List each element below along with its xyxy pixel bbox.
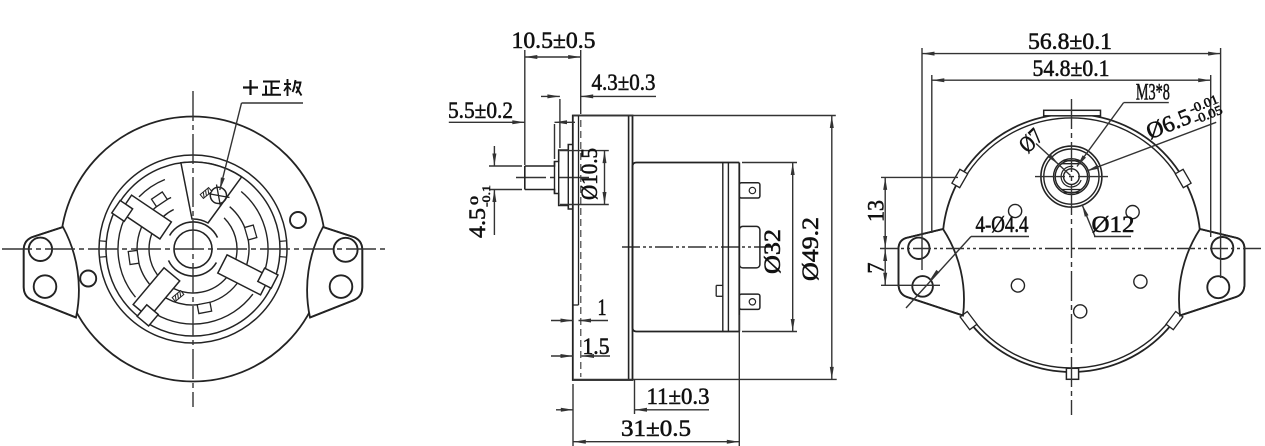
gear ring inner circle — [106, 162, 280, 336]
can seam line 2 — [727, 163, 729, 332]
svg-text:Ø32: Ø32 — [760, 229, 785, 274]
dim Ø10.5 line — [603, 151, 607, 205]
svg-text:-0.1: -0.1 — [479, 185, 493, 207]
right mounting ear (front view) — [307, 227, 362, 318]
stator notch tabs — [128, 192, 257, 314]
label text 4-Ø4.4 — [976, 212, 1029, 237]
right mounting ear (rear view) — [1179, 229, 1244, 316]
ext line boss face — [559, 99, 561, 148]
svg-text:4-Ø4.4: 4-Ø4.4 — [976, 212, 1029, 237]
rivet hole mid right — [1134, 275, 1147, 288]
svg-text:11±0.3: 11±0.3 — [647, 384, 710, 409]
dim 31±0.5 line — [573, 440, 739, 444]
ext line 56.8 left — [921, 48, 923, 270]
polarity label leader line — [220, 103, 242, 190]
right view vertical centerline — [1071, 99, 1073, 415]
label Ø7 leader — [1036, 144, 1071, 176]
dim text 4.3±0.3 — [592, 70, 656, 95]
dim 11±0.3 line — [556, 408, 709, 412]
terminal screw circle — [208, 185, 230, 207]
hub C-ring arc lower — [169, 260, 217, 276]
svg-text:10.5±0.5: 10.5±0.5 — [512, 28, 596, 53]
solder slot lower (hatched) — [172, 291, 184, 302]
rear left ear hole upper — [908, 238, 929, 259]
terminal lug upper — [739, 183, 760, 198]
shaft flat top — [1062, 161, 1082, 164]
left view horizontal centerline — [2, 248, 385, 250]
rotor arm upper-left — [112, 195, 172, 239]
ext line 54.8 left — [931, 75, 933, 233]
character zheng — [262, 82, 281, 95]
dim text 54.8±0.1 — [1033, 56, 1110, 81]
body notch tabs (rear view) — [952, 169, 1191, 329]
shaft centerline (side view) — [516, 177, 590, 179]
motor can centerline (side view) — [622, 246, 772, 248]
M3 tapped hole — [1061, 166, 1081, 187]
svg-text:4.3±0.3: 4.3±0.3 — [592, 70, 656, 95]
ext line shaft center left — [881, 176, 958, 178]
shaft journal circle Ø7 — [1054, 159, 1090, 195]
rivet hole bottom center — [1074, 305, 1087, 318]
ext line shaft tip — [524, 50, 526, 165]
label 4-Ø4.4 leader — [906, 237, 971, 309]
rotor arm lower-left — [133, 268, 180, 326]
label text Ø6.5 -0.01/-0.05 — [1142, 91, 1224, 145]
shaft boss circle Ø12 — [1041, 146, 1102, 207]
dim Ø49.2 line — [830, 116, 834, 380]
ext line hole lower left — [881, 284, 940, 286]
dim text Ø10.5 — [577, 148, 602, 200]
dim 7 line — [883, 249, 887, 286]
label Ø12 underline — [1094, 236, 1131, 238]
motor body outer circle (rear view) — [943, 114, 1201, 372]
ext line 54.8 right — [1210, 75, 1212, 237]
terminal block (top) — [181, 162, 242, 223]
right view horizontal centerline — [880, 248, 1263, 250]
dim Ø32 line — [791, 163, 795, 332]
can seam line 1 — [722, 163, 724, 332]
dim text 1.5 — [583, 334, 610, 359]
gearbox case rectangle — [573, 116, 633, 381]
dim Ø49.2 ext lines — [573, 116, 837, 380]
shaft horizontal centerline — [1035, 176, 1108, 178]
gearbox inner wall line — [573, 116, 579, 306]
shaft circle Ø6.5 — [1055, 160, 1087, 192]
dim 4.5 line — [492, 146, 496, 235]
right ear hole upper — [334, 238, 358, 262]
solder slot upper (hatched) — [200, 188, 212, 199]
top locating tab — [1044, 110, 1101, 116]
stator arc ring r75 — [118, 180, 268, 325]
rivet hole mid left — [1011, 279, 1024, 292]
rear left ear hole lower — [912, 276, 933, 297]
character ji — [284, 79, 302, 96]
label text Ø7 — [1014, 124, 1048, 158]
can seam step — [716, 285, 723, 296]
small body hole right — [290, 212, 306, 228]
dim 1.5 line — [551, 354, 610, 358]
left mounting ear (rear view) — [899, 229, 964, 316]
label Ø6.5 leader — [1087, 122, 1217, 171]
rivet hole upper left — [1009, 204, 1022, 217]
rear right ear hole lower — [1207, 276, 1229, 298]
dim text Ø49.2 — [798, 217, 823, 281]
boss step lines — [555, 145, 569, 210]
ext line small step face — [554, 124, 556, 159]
dim 1 line — [551, 319, 608, 323]
left mounting ear (front view) — [24, 227, 79, 318]
rear bearing boss — [739, 226, 760, 268]
label text Ø12 — [1092, 212, 1135, 237]
bottom locating tab — [1066, 368, 1078, 379]
dim text 4.5 0/-0.1 — [465, 185, 493, 238]
rivet hole upper right — [1126, 206, 1139, 219]
dim 5.5±0.2 line — [449, 120, 575, 124]
left ear hole upper — [29, 238, 52, 261]
dim text 13 — [864, 200, 889, 222]
svg-text:13: 13 — [864, 200, 889, 222]
stator arc ring r44 — [149, 210, 237, 293]
label 4-Ø4.4 underline — [971, 236, 1029, 238]
left ear hole lower — [34, 275, 57, 298]
dim text Ø32 — [760, 229, 785, 274]
svg-text:56.8±0.1: 56.8±0.1 — [1028, 29, 1112, 54]
dim 10.5±0.5 line — [525, 55, 581, 59]
dim text 1 — [598, 295, 607, 320]
stator arc ring r56 — [137, 198, 249, 305]
svg-text:4.5: 4.5 — [465, 208, 490, 238]
label Ø12 leader — [1082, 205, 1095, 237]
output shaft (side view) — [525, 145, 573, 210]
body rim arc bottom — [972, 318, 1172, 368]
polarity label underline — [242, 102, 304, 104]
gear ring outer circle — [99, 155, 287, 343]
left view vertical centerline — [192, 91, 194, 407]
shaft boss rim circle — [1044, 149, 1099, 204]
svg-text:Ø10.5: Ø10.5 — [577, 148, 602, 200]
svg-text:31±0.5: 31±0.5 — [621, 416, 691, 441]
dim 4.3±0.3 line — [541, 94, 656, 98]
small body hole left — [80, 271, 96, 287]
dim 4.5 ext lines — [489, 166, 522, 190]
svg-text:5.5±0.2: 5.5±0.2 — [448, 98, 513, 123]
dim text 31±0.5 — [621, 416, 691, 441]
ext line 56.8 right — [1220, 48, 1222, 278]
svg-text:Ø12: Ø12 — [1092, 212, 1135, 237]
plus sign — [243, 80, 258, 95]
dim text 56.8±0.1 — [1028, 29, 1112, 54]
motor can outline — [633, 163, 740, 332]
dim text 7 — [864, 263, 889, 274]
shaft flat bottom — [1062, 190, 1082, 193]
hub C-ring arc upper — [170, 222, 218, 238]
dim Ø32 ext lines — [742, 163, 797, 332]
label text M3*8 — [1136, 80, 1170, 105]
terminal lug lower — [739, 294, 760, 309]
mounting plate line — [628, 116, 630, 381]
dim text 10.5±0.5 — [512, 28, 596, 53]
dim 13 line — [883, 177, 887, 248]
ext line flange bottom — [572, 384, 574, 446]
ext line end plate bottom — [738, 315, 740, 446]
body rim arc top — [963, 118, 1180, 181]
svg-text:1: 1 — [598, 295, 607, 320]
ext line can face bottom — [634, 380, 636, 414]
label M3*8 underline — [1124, 102, 1169, 104]
label M3*8 leader — [1077, 103, 1124, 167]
dim Ø10.5 ext lines — [560, 151, 609, 205]
rear right ear hole upper — [1211, 237, 1233, 259]
motor body outer circle (front view) — [61, 117, 326, 382]
svg-text:M3*8: M3*8 — [1136, 80, 1170, 105]
dim text 5.5±0.2 — [448, 98, 513, 123]
dim 56.8±0.1 line — [922, 52, 1221, 56]
ext line hidden-edge top — [580, 50, 582, 114]
right ear hole lower — [330, 275, 353, 298]
center shaft hole — [174, 230, 212, 268]
ring segment ticks — [99, 241, 286, 257]
svg-text:Ø49.2: Ø49.2 — [798, 217, 823, 281]
svg-text:54.8±0.1: 54.8±0.1 — [1033, 56, 1110, 81]
dim 54.8±0.1 line — [932, 78, 1211, 82]
rotor arm right — [218, 255, 278, 295]
gearbox hidden line (dashed) — [580, 120, 582, 377]
dim text 11±0.3 — [647, 384, 710, 409]
svg-text:1.5: 1.5 — [583, 334, 610, 359]
svg-text:7: 7 — [864, 263, 889, 274]
